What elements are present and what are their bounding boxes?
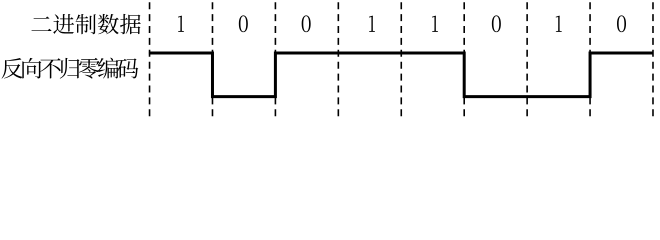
- dashed bit-boundary line 4: [337, 2, 339, 118]
- NRZI waveform trace: [149, 53, 653, 97]
- label "inverted NRZ encoding" 反向不归零编码: [2, 58, 139, 79]
- dashed bit-boundary line 7: [526, 2, 528, 118]
- bit value 1 (cell 7): [556, 16, 562, 32]
- NRZI encoding diagram: [0, 0, 660, 123]
- bit value 0 (cell 2): [239, 15, 248, 32]
- bit value 0 (cell 8): [617, 15, 626, 32]
- dashed bit-boundary line 2: [211, 2, 213, 118]
- bit value 1 (cell 4): [369, 16, 375, 32]
- bit value 1 (cell 5): [432, 16, 438, 32]
- dashed bit-boundary line 3: [274, 2, 276, 118]
- dashed bit-boundary line 1: [149, 2, 151, 118]
- dashed bit-boundary line 5: [400, 2, 402, 118]
- dashed bit-boundary line 6: [463, 2, 465, 118]
- bit value 0 (cell 6): [492, 15, 501, 32]
- label "binary data" 二进制数据: [32, 14, 141, 34]
- dashed bit-boundary line 8: [589, 2, 591, 118]
- bit value 0 (cell 3): [302, 15, 311, 32]
- dashed bit-boundary line 9: [652, 2, 654, 118]
- bit value 1 (cell 1): [178, 16, 184, 32]
